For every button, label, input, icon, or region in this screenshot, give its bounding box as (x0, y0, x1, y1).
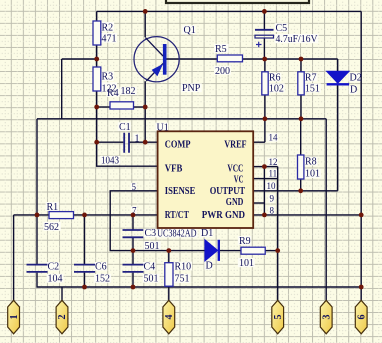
capacitor C1 (101, 122, 140, 167)
svg-text:R6: R6 (269, 73, 281, 84)
svg-text:GND: GND (226, 197, 244, 208)
wire R1/RT-CT row y=214.9 (14, 214, 158, 216)
junction pin8 row / right rail (359, 213, 364, 218)
junction C1 left (94, 140, 99, 145)
resistor R9 (239, 236, 265, 269)
junction C6 top / RT-CT row (82, 213, 87, 218)
wire D2 bottom lead to OUTPUT row (337, 84, 339, 191)
junction R7 top on y=59 (299, 57, 304, 62)
capacitor C5 (polarized) (255, 23, 318, 47)
wire connector 3 stem from rail (325, 119, 327, 301)
svg-text:R5: R5 (215, 44, 227, 55)
svg-text:2: 2 (57, 315, 68, 320)
svg-text:751: 751 (175, 274, 190, 285)
junction R10 top (166, 248, 171, 253)
wire C2 top lead (36, 215, 38, 264)
svg-text:PNP: PNP (182, 83, 201, 94)
connector 5 (272, 300, 284, 334)
wire D1 cathode to R9 (220, 250, 241, 252)
junction C3 top / RT-CT row (131, 213, 136, 218)
diode D1 (201, 228, 219, 271)
wire R7 bottom lead (300, 95, 302, 119)
svg-text:VREF: VREF (224, 139, 246, 150)
svg-text:R7: R7 (305, 73, 317, 84)
wire D2 top lead (337, 59, 339, 71)
svg-text:C3: C3 (145, 228, 157, 239)
capacitor C3 (123, 228, 160, 252)
svg-text:1043: 1043 (101, 156, 119, 167)
junction C3 bottom / C4 top (131, 248, 136, 253)
wire C6 top lead (84, 215, 86, 264)
wire R4 left lead (97, 106, 110, 108)
wire C4 top lead (132, 251, 134, 265)
wire R2 bottom to R3 top (96, 45, 98, 67)
junction C6 bottom / bus (82, 285, 87, 290)
wire R3 bottom lead (96, 91, 98, 107)
svg-text:200: 200 (215, 66, 230, 77)
svg-text:104: 104 (48, 274, 63, 285)
wire VCC pin 12 stub (253, 166, 278, 168)
junction pin8/pin9 node (262, 213, 267, 218)
junction R4 left (94, 105, 99, 110)
connector 2 (56, 300, 68, 334)
junction R2/R3 node (94, 57, 99, 62)
wire ISENSE pin 5 route to D1 anode (110, 191, 205, 251)
svg-text:C1: C1 (119, 122, 131, 133)
junction C5 / top rail (262, 9, 267, 14)
svg-text:D1: D1 (201, 228, 213, 239)
wire VREF pin 14 stub (253, 141, 265, 143)
junction Q1 collector / top rail (143, 9, 148, 14)
wire vertical x=37 from rail to R1 row (36, 119, 38, 215)
svg-text:182: 182 (121, 86, 136, 97)
svg-text:R9: R9 (239, 236, 251, 247)
wire R2 top lead (96, 11, 98, 22)
svg-text:C2: C2 (48, 262, 60, 273)
svg-text:7: 7 (132, 205, 137, 215)
wire C4 bottom lead (132, 273, 134, 287)
svg-text:VC: VC (234, 174, 244, 185)
connector 6 (355, 300, 367, 334)
wire C3 bottom lead (132, 238, 134, 251)
connector 1 (8, 300, 20, 334)
partially visible object at top edge (166, 0, 309, 3)
svg-text:3: 3 (321, 315, 332, 320)
capacitor C4 (123, 262, 159, 285)
wire R10 bottom / connector 4 stem (168, 286, 170, 300)
wire GND pin 9 jog (253, 202, 264, 204)
junction R6 bottom on rail (263, 116, 268, 121)
svg-text:6: 6 (356, 315, 367, 320)
svg-text:VFB: VFB (165, 163, 183, 174)
svg-text:102: 102 (269, 84, 284, 95)
wire C1 left node down to VFB pin (97, 142, 158, 166)
svg-text:UC3842AD: UC3842AD (157, 228, 196, 239)
diode D2 (327, 71, 362, 95)
junction R7 bottom on rail (299, 116, 304, 121)
svg-text:Q1: Q1 (184, 25, 196, 36)
junction VCC pin 12 (262, 164, 267, 169)
wire vertical x=96.7 from R4 node to C1 node (96, 107, 98, 142)
svg-text:VCC: VCC (227, 163, 243, 174)
wire PWR GND pin 8 row y=214.9 (253, 214, 361, 216)
svg-text:R10: R10 (175, 261, 192, 272)
transistor Q1 (PNP) (134, 25, 201, 94)
svg-text:14: 14 (269, 133, 279, 143)
wire vertical x=277.7 down to connector 5 (277, 167, 279, 301)
op-amp U1 (UC3842AD controller) (132, 122, 279, 239)
svg-text:152: 152 (95, 274, 110, 285)
svg-text:D: D (350, 85, 357, 96)
junction bus / right rail (359, 285, 364, 290)
svg-text:562: 562 (44, 222, 59, 233)
junction R9 right (275, 248, 280, 253)
svg-text:R4: R4 (107, 88, 119, 99)
wire VC pin 11 stub (253, 178, 278, 180)
wire C1 left lead (97, 141, 124, 143)
svg-text:5: 5 (273, 315, 284, 320)
svg-text:12: 12 (269, 157, 278, 167)
wire R5 right to D2 corner (243, 58, 338, 60)
wire R6 bottom lead (264, 95, 266, 119)
wire Q1 collector from top rail (144, 11, 146, 37)
wire R8 top lead (300, 119, 302, 155)
wire C5 top lead (263, 11, 265, 29)
wire R4 right lead (134, 106, 146, 108)
capacitor C2 (27, 262, 63, 285)
svg-text:RT/CT: RT/CT (165, 210, 189, 221)
wire vertical x=264.4 pin12 node to pin8 row (263, 167, 265, 215)
resistor R7 (298, 72, 320, 95)
wire Q1 base to R5 (167, 58, 218, 60)
resistor R6 (262, 72, 284, 95)
svg-text:R3: R3 (102, 72, 114, 83)
svg-text:PWR GND: PWR GND (202, 210, 245, 221)
svg-text:U1: U1 (157, 122, 169, 133)
svg-text:1: 1 (9, 315, 20, 320)
wire C3 top lead from RT/CT node (132, 215, 134, 230)
svg-text:C6: C6 (95, 262, 107, 273)
capacitor C6 (74, 262, 110, 285)
svg-text:R2: R2 (102, 23, 114, 34)
svg-text:R1: R1 (47, 202, 59, 213)
resistor R5 (215, 44, 243, 77)
svg-text:5: 5 (132, 182, 137, 192)
svg-text:501: 501 (144, 274, 159, 285)
resistor R10 (165, 261, 191, 286)
junction C4 bottom / bus (131, 285, 136, 290)
junction R1 left (35, 213, 40, 218)
wire node R2/R3 going left (62, 58, 97, 60)
svg-text:D2: D2 (350, 73, 362, 84)
wire right rail x=360.8 down to connector 6 (360, 11, 362, 300)
wire R8 bottom lead (300, 179, 302, 191)
resistor R1 (44, 202, 74, 233)
svg-text:C5: C5 (276, 23, 288, 34)
wire branch to connector 1 (13, 215, 15, 301)
svg-text:1: 1 (135, 133, 140, 144)
resistor R2 (93, 21, 117, 45)
svg-text:C4: C4 (144, 262, 156, 273)
svg-text:9: 9 (270, 194, 275, 204)
svg-text:101: 101 (239, 258, 254, 269)
connector 3 (320, 300, 332, 334)
wire vertical x=61.7 (61, 59, 63, 119)
junction C5/R6 on y=59 (262, 57, 267, 62)
wire R10 top lead (168, 251, 170, 263)
wire vertical x=145.2 R4 node to COMP node (144, 107, 146, 142)
junction R8 bottom / OUTPUT (298, 188, 303, 193)
wire Q1 emitter down to R4 node (144, 81, 146, 107)
resistor R4 (107, 86, 136, 109)
svg-text:8: 8 (270, 205, 275, 215)
wire horizontal feedback rail y=118.8 (37, 118, 326, 120)
svg-text:101: 101 (305, 169, 320, 180)
wire R9 right lead (265, 250, 278, 252)
wire OUTPUT pin 10 row y=190.8 (253, 190, 338, 192)
wire vertical x=264.9 rail to pin 14 (264, 119, 266, 142)
wire C1 right lead / COMP pin 1 (129, 141, 158, 143)
svg-text:4: 4 (164, 315, 175, 320)
svg-text:4.7uF/16V: 4.7uF/16V (276, 34, 319, 45)
svg-text:501: 501 (145, 241, 160, 252)
svg-text:ISENSE: ISENSE (165, 186, 196, 197)
svg-text:R8: R8 (305, 157, 317, 168)
svg-text:11: 11 (269, 168, 278, 178)
resistor R3 (93, 67, 117, 95)
wire R7 top lead (300, 59, 302, 72)
wire R6 top lead (264, 59, 266, 72)
svg-text:COMP: COMP (165, 139, 191, 150)
connector 4 (163, 300, 175, 334)
svg-text:OUTPUT: OUTPUT (210, 186, 246, 197)
wire C6 bottom lead (84, 273, 86, 287)
svg-text:10: 10 (267, 181, 277, 191)
wire top rail y=10.3 (97, 10, 362, 12)
junction C1 right / COMP (143, 140, 148, 145)
label backgrounds (43, 22, 362, 283)
junction R4 right (143, 105, 148, 110)
svg-text:D: D (206, 261, 213, 272)
svg-text:151: 151 (305, 84, 320, 95)
resistor R8 (298, 155, 321, 180)
wire connector 2 stem (61, 287, 63, 301)
svg-text:471: 471 (102, 34, 117, 45)
wire C5 bottom lead (263, 38, 265, 59)
wire C2 bottom lead and bottom bus y=287.4 (37, 273, 361, 287)
